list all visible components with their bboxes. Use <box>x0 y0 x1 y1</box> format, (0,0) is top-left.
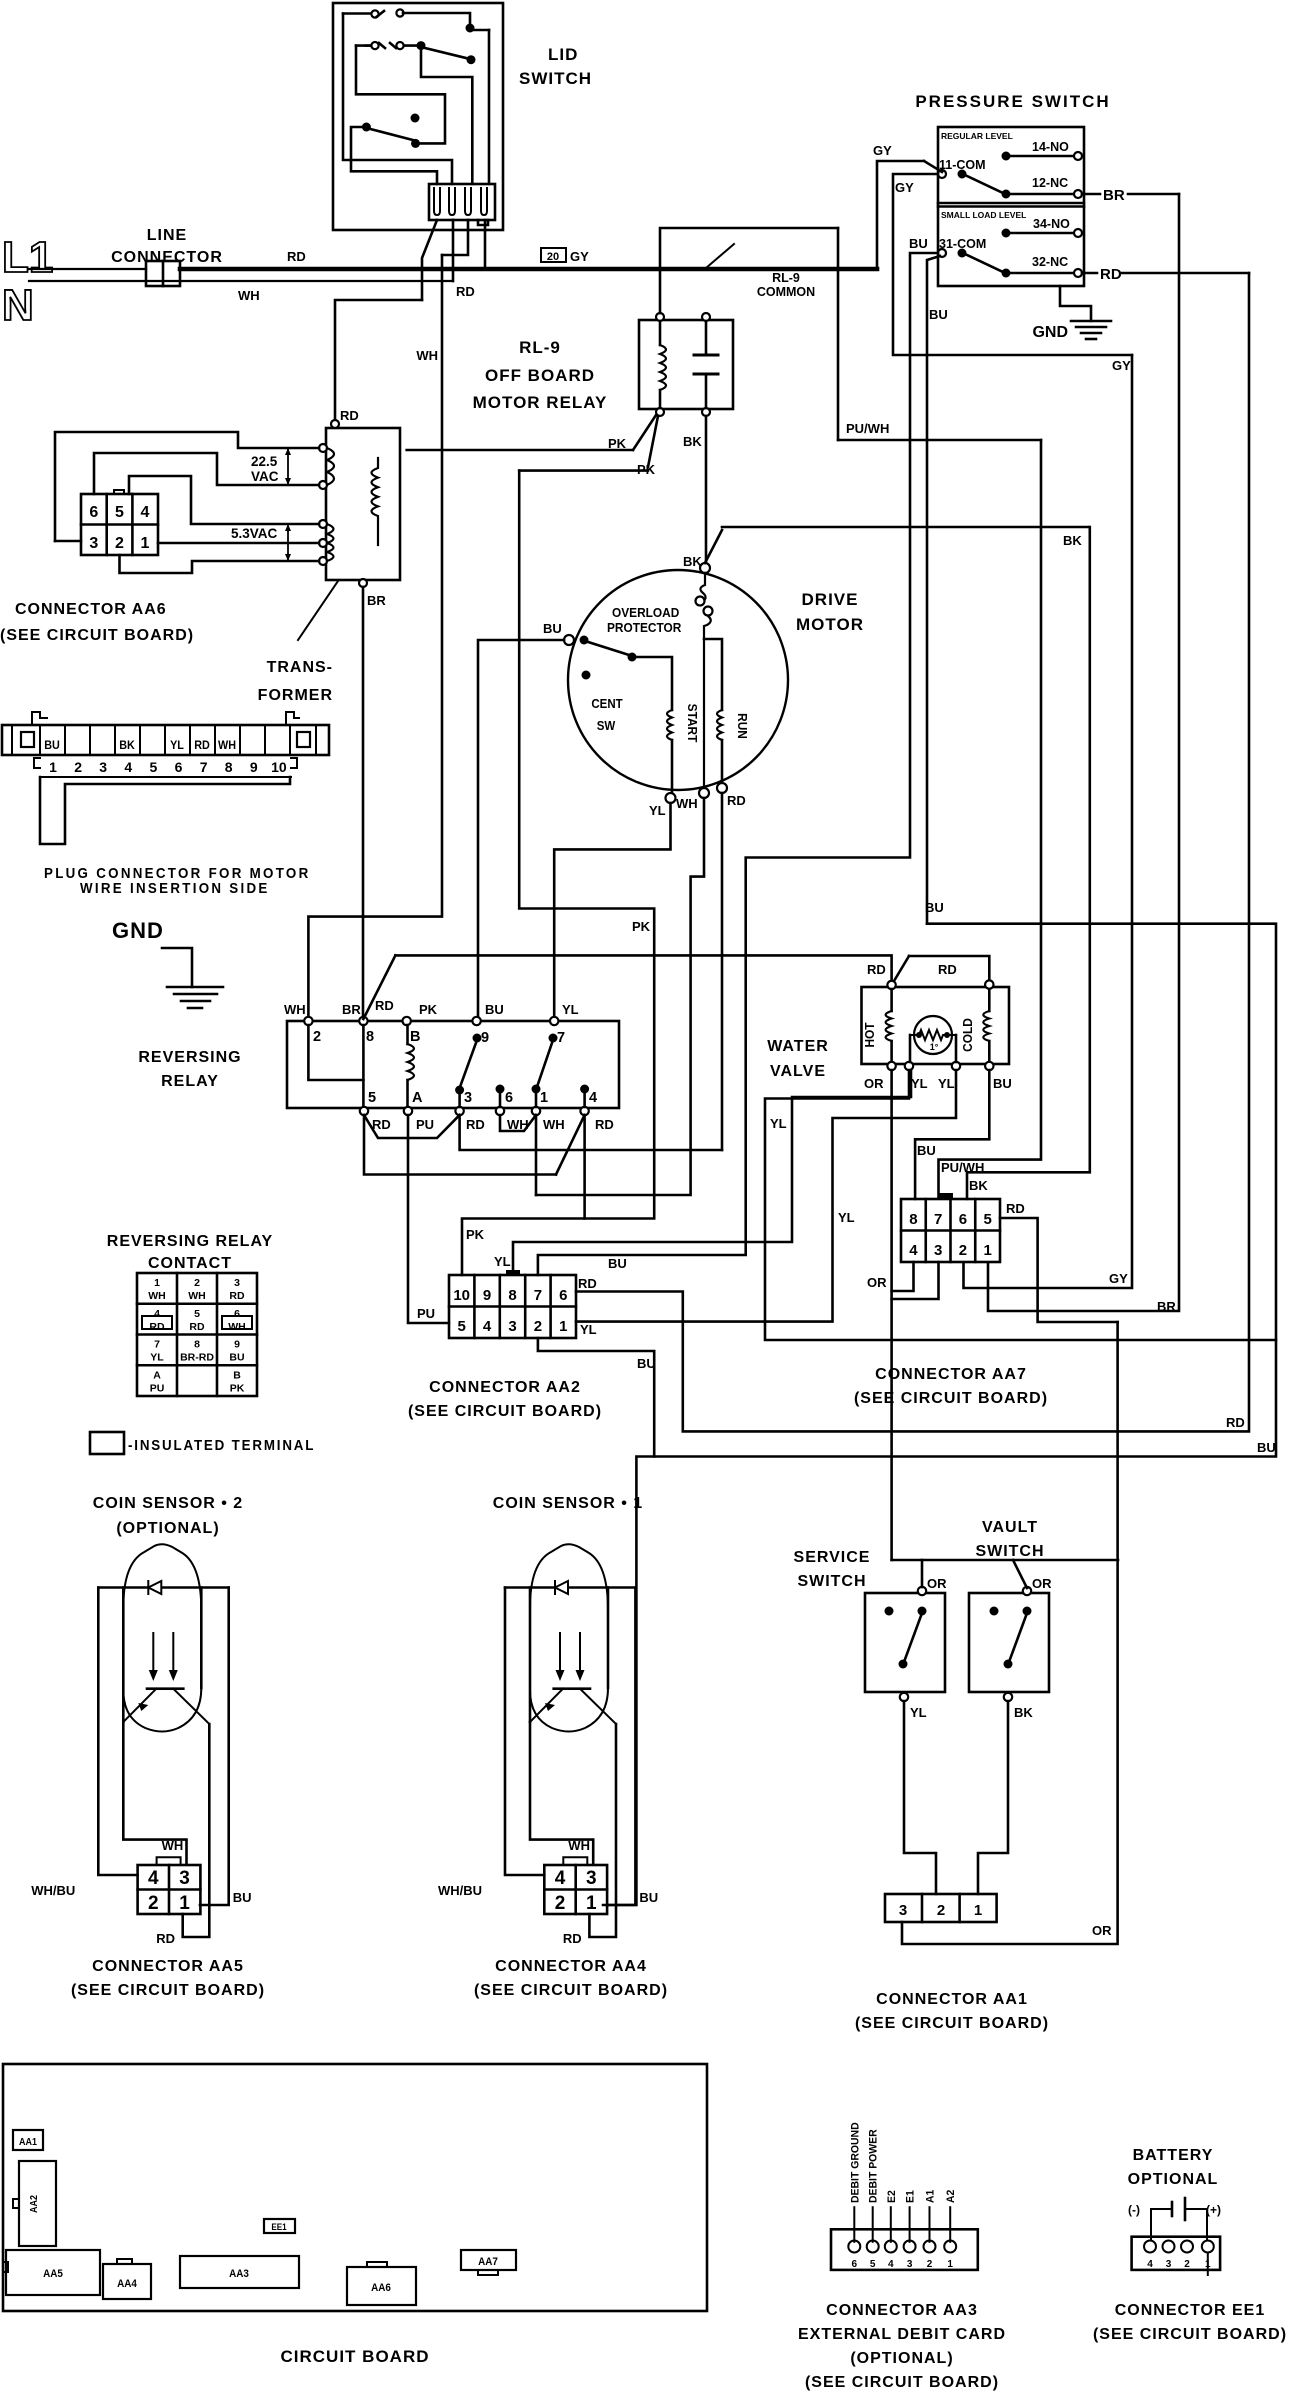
svg-text:3: 3 <box>89 535 98 552</box>
wire BR transformer to relay <box>362 587 365 1019</box>
wire GY main to 11-COM <box>877 161 924 269</box>
svg-text:2: 2 <box>1184 2259 1190 2270</box>
svg-text:(SEE CIRCUIT BOARD): (SEE CIRCUIT BOARD) <box>805 2374 999 2391</box>
RL-9 COMMON pointer <box>706 244 734 268</box>
svg-text:RD: RD <box>287 249 306 264</box>
svg-text:(OPTIONAL): (OPTIONAL) <box>116 1520 219 1537</box>
svg-text:A2: A2 <box>945 2190 957 2203</box>
svg-text:8: 8 <box>194 1339 200 1351</box>
svg-text:RD: RD <box>563 1931 582 1946</box>
ground symbol pressure switch <box>1071 320 1111 323</box>
AA2 pin8 tab <box>507 1271 519 1275</box>
svg-text:YL: YL <box>649 803 666 818</box>
svg-text:WH: WH <box>284 1002 306 1017</box>
svg-text:GY: GY <box>570 249 589 264</box>
svg-text:5: 5 <box>150 759 158 775</box>
thermistor resistor <box>910 1030 956 1040</box>
contact table <box>137 1273 257 1396</box>
svg-text:N: N <box>2 281 34 330</box>
wire PK diagonal 2 <box>648 416 658 467</box>
transformer bottom BR terminal <box>359 579 367 587</box>
water valve thermistor circle <box>914 1016 952 1054</box>
svg-text:34-NO: 34-NO <box>1033 217 1070 231</box>
svg-text:AA3: AA3 <box>229 2269 249 2281</box>
svg-text:OR: OR <box>864 1076 884 1091</box>
relay RD jumper 5-3 <box>364 1115 460 1138</box>
svg-text:WH: WH <box>676 796 698 811</box>
svg-text:YL: YL <box>838 1210 855 1225</box>
connector AA2 grid <box>449 1275 576 1338</box>
coin sensor inner rect sides <box>529 1588 532 1723</box>
svg-text:9: 9 <box>483 1287 491 1304</box>
svg-text:RD: RD <box>1100 266 1122 283</box>
thermistor leads <box>909 1035 912 1062</box>
transformer secondary coil top <box>327 448 334 485</box>
svg-text:REGULAR LEVEL: REGULAR LEVEL <box>941 131 1013 141</box>
wire PU/WH from RL-9 top <box>660 228 838 313</box>
connector top tab <box>157 1857 181 1865</box>
22.5 vac measure arrows <box>287 448 289 485</box>
svg-text:BK: BK <box>1014 1705 1033 1720</box>
wire GY long <box>964 355 1133 1288</box>
20 GY tag <box>541 248 566 262</box>
svg-text:GND: GND <box>1032 324 1068 341</box>
svg-text:6: 6 <box>89 504 98 521</box>
wire PK from RL-9 <box>633 415 656 450</box>
svg-text:3: 3 <box>899 1902 907 1919</box>
svg-text:OR: OR <box>867 1275 887 1290</box>
svg-text:WH: WH <box>148 1290 166 1302</box>
svg-text:20: 20 <box>547 251 559 263</box>
svg-text:3: 3 <box>508 1318 516 1335</box>
board connector AA7 <box>461 2250 516 2270</box>
svg-text:GY: GY <box>873 143 892 158</box>
svg-text:4: 4 <box>555 1868 566 1889</box>
svg-text:2: 2 <box>313 1029 321 1045</box>
svg-text:PK: PK <box>608 436 627 451</box>
svg-text:1: 1 <box>141 535 150 552</box>
svg-text:AA5: AA5 <box>43 2269 63 2281</box>
wire RD to transformer <box>335 300 422 420</box>
wire YL2 water valve to AA2 pin1 <box>576 1070 956 1322</box>
svg-text:PU: PU <box>417 1306 435 1321</box>
AA6 top tab <box>114 490 124 494</box>
svg-text:2: 2 <box>555 1893 566 1914</box>
svg-text:5: 5 <box>115 504 124 521</box>
svg-text:6: 6 <box>559 1287 567 1304</box>
RL-9 coil <box>660 345 666 390</box>
svg-text:WATER: WATER <box>767 1038 829 1055</box>
wire BK long vertical <box>967 527 1090 1199</box>
motor BU terminal <box>564 635 574 645</box>
svg-text:OR: OR <box>1092 1923 1112 1938</box>
svg-text:4: 4 <box>1147 2259 1153 2270</box>
svg-text:RD: RD <box>156 1931 175 1946</box>
svg-text:B: B <box>410 1029 420 1045</box>
svg-text:RD: RD <box>194 740 210 753</box>
svg-text:6: 6 <box>234 1308 240 1320</box>
coin sensor photo arrows <box>152 1633 154 1675</box>
svg-text:RL-9: RL-9 <box>772 271 800 285</box>
wire PU/WH vertical <box>837 228 840 440</box>
RL-9 capacitor <box>705 321 708 355</box>
svg-text:4: 4 <box>909 1242 918 1259</box>
svg-text:RD: RD <box>466 1117 485 1132</box>
svg-text:WH: WH <box>568 1838 590 1853</box>
wire BK vault to AA1 <box>978 1701 1008 1894</box>
reversing relay box <box>287 1021 619 1108</box>
svg-text:(SEE CIRCUIT BOARD): (SEE CIRCUIT BOARD) <box>474 1982 668 1999</box>
svg-text:YL: YL <box>580 1322 597 1337</box>
coin sensor diode <box>148 1581 161 1594</box>
HOT coil <box>890 989 893 1011</box>
line connector body <box>146 261 180 286</box>
vault switch box <box>969 1593 1049 1692</box>
coin sensor diode <box>555 1581 568 1594</box>
svg-text:6: 6 <box>959 1211 967 1228</box>
svg-text:7: 7 <box>154 1339 160 1351</box>
svg-text:CONNECTOR AA7: CONNECTOR AA7 <box>875 1366 1027 1383</box>
svg-text:(SEE CIRCUIT BOARD): (SEE CIRCUIT BOARD) <box>71 1982 265 1999</box>
coin sensor collector wire <box>589 1724 616 1937</box>
water valve box <box>862 987 1010 1064</box>
water valve bottom terminals <box>887 1062 895 1070</box>
svg-text:EE1: EE1 <box>271 2222 287 2233</box>
wire L1 RD to lid switch area (heavy) <box>180 267 877 272</box>
drive motor circle <box>568 570 788 790</box>
water valve RD top link <box>894 956 909 981</box>
coin sensor photo arrows <box>559 1633 561 1675</box>
svg-text:7: 7 <box>557 1030 565 1046</box>
svg-text:COIN SENSOR • 1: COIN SENSOR • 1 <box>493 1495 643 1512</box>
motor WH terminal <box>699 788 709 798</box>
svg-text:MOTOR RELAY: MOTOR RELAY <box>473 393 608 412</box>
pressure switch GND wire <box>1060 286 1091 321</box>
svg-text:YL: YL <box>494 1254 511 1269</box>
coin sensor transistor <box>147 1687 183 1690</box>
svg-text:7: 7 <box>934 1211 942 1228</box>
svg-text:CONNECTOR AA2: CONNECTOR AA2 <box>429 1379 581 1396</box>
svg-text:A1: A1 <box>924 2190 936 2203</box>
svg-text:VAC: VAC <box>251 469 279 484</box>
svg-text:2: 2 <box>148 1893 159 1914</box>
svg-text:BU: BU <box>608 1256 627 1271</box>
svg-text:BU: BU <box>637 1356 656 1371</box>
svg-text:3: 3 <box>179 1868 190 1889</box>
connector AA3 box <box>831 2229 978 2270</box>
svg-text:WH/BU: WH/BU <box>438 1883 482 1898</box>
relay switch 9-3 <box>460 1040 477 1087</box>
svg-text:GY: GY <box>895 180 914 195</box>
svg-text:BK: BK <box>969 1178 988 1193</box>
svg-text:B: B <box>233 1369 241 1381</box>
svg-text:1: 1 <box>983 1242 991 1259</box>
svg-text:1: 1 <box>154 1277 160 1289</box>
svg-text:BU: BU <box>917 1143 936 1158</box>
svg-text:BU: BU <box>233 1890 252 1905</box>
wire OR AA7 pin4 <box>892 1262 914 1291</box>
svg-text:BK: BK <box>683 434 702 449</box>
wire relay 4 to PK line <box>583 1115 586 1219</box>
svg-text:BR: BR <box>367 593 386 608</box>
svg-text:(SEE CIRCUIT BOARD): (SEE CIRCUIT BOARD) <box>854 1390 1048 1407</box>
svg-text:YL: YL <box>910 1705 927 1720</box>
svg-text:10: 10 <box>271 759 287 775</box>
wire top loop to transformer <box>55 432 319 541</box>
svg-text:WH: WH <box>218 740 236 753</box>
svg-text:9: 9 <box>250 759 258 775</box>
svg-text:4: 4 <box>141 504 150 521</box>
svg-text:RD: RD <box>867 962 886 977</box>
svg-text:AA6: AA6 <box>371 2283 391 2295</box>
wire RD relay 3 to motor RD <box>460 1115 722 1150</box>
svg-text:OPTIONAL: OPTIONAL <box>1128 2171 1219 2188</box>
svg-text:4: 4 <box>148 1868 159 1889</box>
svg-text:(SEE CIRCUIT BOARD): (SEE CIRCUIT BOARD) <box>1093 2326 1287 2343</box>
coin sensor emitter wire <box>123 1722 186 1864</box>
svg-text:3: 3 <box>99 759 107 775</box>
insulated terminal legend <box>90 1432 124 1454</box>
svg-text:WH: WH <box>416 348 438 363</box>
svg-text:RD: RD <box>340 408 359 423</box>
svg-text:CENT: CENT <box>591 697 623 712</box>
svg-text:RD: RD <box>149 1321 165 1333</box>
svg-text:CONNECTOR AA6: CONNECTOR AA6 <box>15 601 167 618</box>
svg-text:6: 6 <box>175 759 183 775</box>
svg-text:A: A <box>412 1090 423 1106</box>
svg-text:1: 1 <box>49 759 57 775</box>
svg-text:E2: E2 <box>886 2190 898 2203</box>
coin sensor body outline <box>123 1544 201 1731</box>
svg-text:SERVICE: SERVICE <box>794 1549 871 1566</box>
svg-text:5: 5 <box>870 2259 876 2270</box>
svg-text:YL: YL <box>150 1352 164 1364</box>
svg-text:9: 9 <box>481 1030 489 1046</box>
board connector EE1 <box>264 2219 295 2233</box>
wire YL pin8 AA2 <box>513 1070 911 1272</box>
svg-text:YL: YL <box>170 740 184 753</box>
svg-text:5: 5 <box>194 1308 200 1320</box>
svg-text:4: 4 <box>154 1308 160 1320</box>
ground symbol left <box>162 948 192 987</box>
wire WH motor to relay1 <box>536 798 704 1195</box>
svg-text:PK: PK <box>632 919 651 934</box>
svg-text:RD: RD <box>727 793 746 808</box>
wire AA6-1 to transformer <box>158 542 319 545</box>
run winding <box>704 639 722 710</box>
svg-text:RD: RD <box>375 998 394 1013</box>
svg-text:4: 4 <box>888 2259 894 2270</box>
wire YL motor to relay <box>554 803 670 1017</box>
svg-text:2: 2 <box>959 1242 967 1259</box>
svg-text:DEBIT GROUND: DEBIT GROUND <box>849 2122 861 2203</box>
svg-text:AA4: AA4 <box>117 2279 137 2291</box>
svg-text:PK: PK <box>230 1382 245 1394</box>
transformer box <box>326 428 400 580</box>
svg-text:BU: BU <box>925 900 944 915</box>
svg-text:RD: RD <box>189 1321 205 1333</box>
relay coil <box>408 1044 415 1080</box>
svg-text:BR-RD: BR-RD <box>180 1352 214 1364</box>
svg-text:1: 1 <box>947 2259 953 2270</box>
svg-text:(SEE CIRCUIT BOARD): (SEE CIRCUIT BOARD) <box>408 1403 602 1420</box>
svg-text:RD: RD <box>595 1117 614 1132</box>
svg-text:14-NO: 14-NO <box>1032 140 1069 154</box>
svg-text:CONNECTOR AA5: CONNECTOR AA5 <box>92 1958 244 1975</box>
connector 2x2 grid <box>544 1865 607 1914</box>
svg-text:4: 4 <box>124 759 132 775</box>
lid switch wire left outer <box>343 14 452 185</box>
connector AA7 grid <box>901 1199 1000 1262</box>
svg-text:WH: WH <box>162 1838 184 1853</box>
svg-text:SWITCH: SWITCH <box>975 1543 1044 1560</box>
lid switch internal contacts <box>343 12 372 15</box>
svg-text:RD: RD <box>372 1117 391 1132</box>
plug connector strip <box>2 725 329 755</box>
svg-text:2: 2 <box>927 2259 933 2270</box>
svg-text:DEBIT POWER: DEBIT POWER <box>867 2129 879 2203</box>
svg-text:BU: BU <box>543 621 562 636</box>
svg-text:EXTERNAL DEBIT CARD: EXTERNAL DEBIT CARD <box>798 2326 1006 2343</box>
wire slot2 to N line <box>452 220 455 281</box>
svg-text:CONNECTOR EE1: CONNECTOR EE1 <box>1115 2302 1266 2319</box>
wire BU from 31-COM down to AA2 pin7 <box>538 253 938 1275</box>
svg-text:1: 1 <box>179 1893 190 1914</box>
svg-text:BU: BU <box>929 307 948 322</box>
board connector AA2 <box>19 2161 56 2246</box>
svg-text:CONTACT: CONTACT <box>148 1255 232 1272</box>
circuit board outline <box>3 2064 707 2311</box>
svg-text:WH: WH <box>188 1290 206 1302</box>
svg-text:SMALL LOAD LEVEL: SMALL LOAD LEVEL <box>941 210 1026 220</box>
svg-text:5: 5 <box>458 1318 466 1335</box>
svg-text:4: 4 <box>483 1318 492 1335</box>
svg-text:PROTECTOR: PROTECTOR <box>607 621 682 635</box>
svg-text:LID: LID <box>548 45 578 64</box>
wire RD AA7 pin5 <box>1000 1218 1118 1322</box>
svg-text:YL: YL <box>562 1002 579 1017</box>
connector EE1 box <box>1132 2237 1221 2270</box>
coin sensor outer wires <box>98 1588 137 1876</box>
svg-text:PU/WH: PU/WH <box>941 1160 984 1175</box>
wire L1 RD <box>29 268 146 270</box>
svg-text:2: 2 <box>115 535 124 552</box>
svg-text:SW: SW <box>597 719 616 734</box>
svg-text:1: 1 <box>974 1902 982 1919</box>
plug connector inner square right <box>297 732 310 747</box>
svg-text:A: A <box>153 1369 161 1381</box>
transformer left terminals <box>319 444 327 452</box>
RL-9 terminals <box>656 313 664 321</box>
coin sensor body outline <box>530 1544 608 1731</box>
svg-text:(OPTIONAL): (OPTIONAL) <box>850 2350 953 2367</box>
relay WH jumper 6-1 <box>500 1115 536 1131</box>
wire RD motor down <box>721 793 724 1150</box>
connector 2x2 grid <box>138 1865 201 1914</box>
svg-text:CONNECTOR AA1: CONNECTOR AA1 <box>876 1991 1028 2008</box>
svg-text:GY: GY <box>1109 1271 1128 1286</box>
svg-text:RD: RD <box>1006 1201 1025 1216</box>
svg-text:RD: RD <box>938 962 957 977</box>
svg-text:22.5: 22.5 <box>251 454 278 469</box>
lid switch box <box>333 3 503 230</box>
pressure switch box <box>938 127 1084 286</box>
svg-text:CONNECTOR AA4: CONNECTOR AA4 <box>495 1958 647 1975</box>
wire OR switch supply <box>892 1559 1118 1562</box>
svg-text:AA1: AA1 <box>19 2137 38 2149</box>
svg-text:BU: BU <box>1257 1440 1276 1455</box>
svg-text:WH/BU: WH/BU <box>31 1883 75 1898</box>
board connector AA6 <box>347 2267 416 2305</box>
motor YL terminal <box>666 793 676 803</box>
svg-text:1: 1 <box>540 1090 548 1106</box>
svg-text:E1: E1 <box>904 2190 916 2203</box>
wire RD from 32-NC <box>1082 272 1097 275</box>
wire GY from 11-COM down <box>893 174 1132 355</box>
svg-text:6: 6 <box>852 2259 858 2270</box>
svg-text:1: 1 <box>559 1318 567 1335</box>
wire YL1 water valve <box>765 1070 1276 1340</box>
svg-text:BK: BK <box>119 740 135 753</box>
wire OR water valve down <box>890 1070 893 1560</box>
service switch box <box>865 1593 945 1692</box>
overload protector contacts <box>696 597 705 606</box>
svg-text:WH: WH <box>238 288 260 303</box>
svg-text:(SEE CIRCUIT BOARD): (SEE CIRCUIT BOARD) <box>0 627 194 644</box>
svg-text:3: 3 <box>934 1242 942 1259</box>
lid switch S-wire <box>356 46 445 144</box>
svg-text:5: 5 <box>983 1211 991 1228</box>
wire PU/WH AA7 pin7 <box>939 440 1042 1197</box>
svg-text:1: 1 <box>586 1893 597 1914</box>
svg-text:AA2: AA2 <box>29 2195 41 2213</box>
svg-text:BR: BR <box>1103 187 1125 204</box>
svg-text:MOTOR: MOTOR <box>796 615 864 634</box>
svg-text:RL-9: RL-9 <box>519 338 561 357</box>
board connector AA4 <box>103 2264 151 2299</box>
wires from lid switch connector <box>422 220 437 300</box>
wire slot4 to GY line <box>484 220 487 269</box>
svg-text:START: START <box>685 704 699 743</box>
svg-text:FORMER: FORMER <box>258 687 333 704</box>
plug connector top hooks <box>32 712 47 725</box>
svg-text:7: 7 <box>534 1287 542 1304</box>
wire BK RL-9 to motor <box>705 416 708 564</box>
wire BR from 12-NC <box>1082 193 1100 196</box>
wire RD long 32NC <box>576 273 1249 1431</box>
transformer secondary coil bottom <box>327 524 334 561</box>
svg-text:CONNECTOR AA3: CONNECTOR AA3 <box>826 2302 978 2319</box>
svg-text:OFF BOARD: OFF BOARD <box>485 366 595 385</box>
svg-text:CONNECTOR: CONNECTOR <box>111 249 223 266</box>
svg-text:9: 9 <box>234 1339 240 1351</box>
svg-text:REVERSING RELAY: REVERSING RELAY <box>107 1233 273 1250</box>
plug connector number row <box>40 776 291 778</box>
transformer primary coil <box>372 458 379 545</box>
svg-text:BU: BU <box>639 1890 658 1905</box>
wire RD water valve from relay 8 <box>363 955 395 1019</box>
CENT SW switch <box>580 636 589 645</box>
connector top tab <box>563 1857 587 1865</box>
svg-text:BK: BK <box>1063 533 1082 548</box>
svg-text:2: 2 <box>937 1902 945 1919</box>
svg-text:SWITCH: SWITCH <box>797 1573 866 1590</box>
plug connector inner square left <box>21 732 34 747</box>
svg-text:8: 8 <box>366 1029 374 1045</box>
wire PU relay A to AA2 <box>408 1115 449 1323</box>
board connector AA5 <box>6 2250 100 2295</box>
wire relay 1 to motor WH <box>535 1115 538 1195</box>
